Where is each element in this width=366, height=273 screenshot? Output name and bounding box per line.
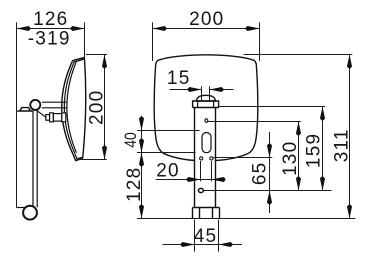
- svg-text:65: 65: [249, 162, 270, 186]
- svg-text:159: 159: [304, 133, 325, 168]
- svg-text:200: 200: [189, 9, 224, 30]
- svg-text:311: 311: [332, 128, 353, 162]
- svg-text:15: 15: [167, 68, 191, 89]
- svg-text:200: 200: [87, 90, 108, 125]
- svg-text:130: 130: [280, 141, 301, 176]
- svg-text:126: 126: [33, 9, 68, 30]
- svg-text:45: 45: [194, 226, 218, 247]
- svg-text:-319: -319: [28, 28, 71, 49]
- svg-text:128: 128: [124, 167, 145, 202]
- svg-text:20: 20: [156, 160, 180, 181]
- svg-text:40: 40: [121, 132, 140, 148]
